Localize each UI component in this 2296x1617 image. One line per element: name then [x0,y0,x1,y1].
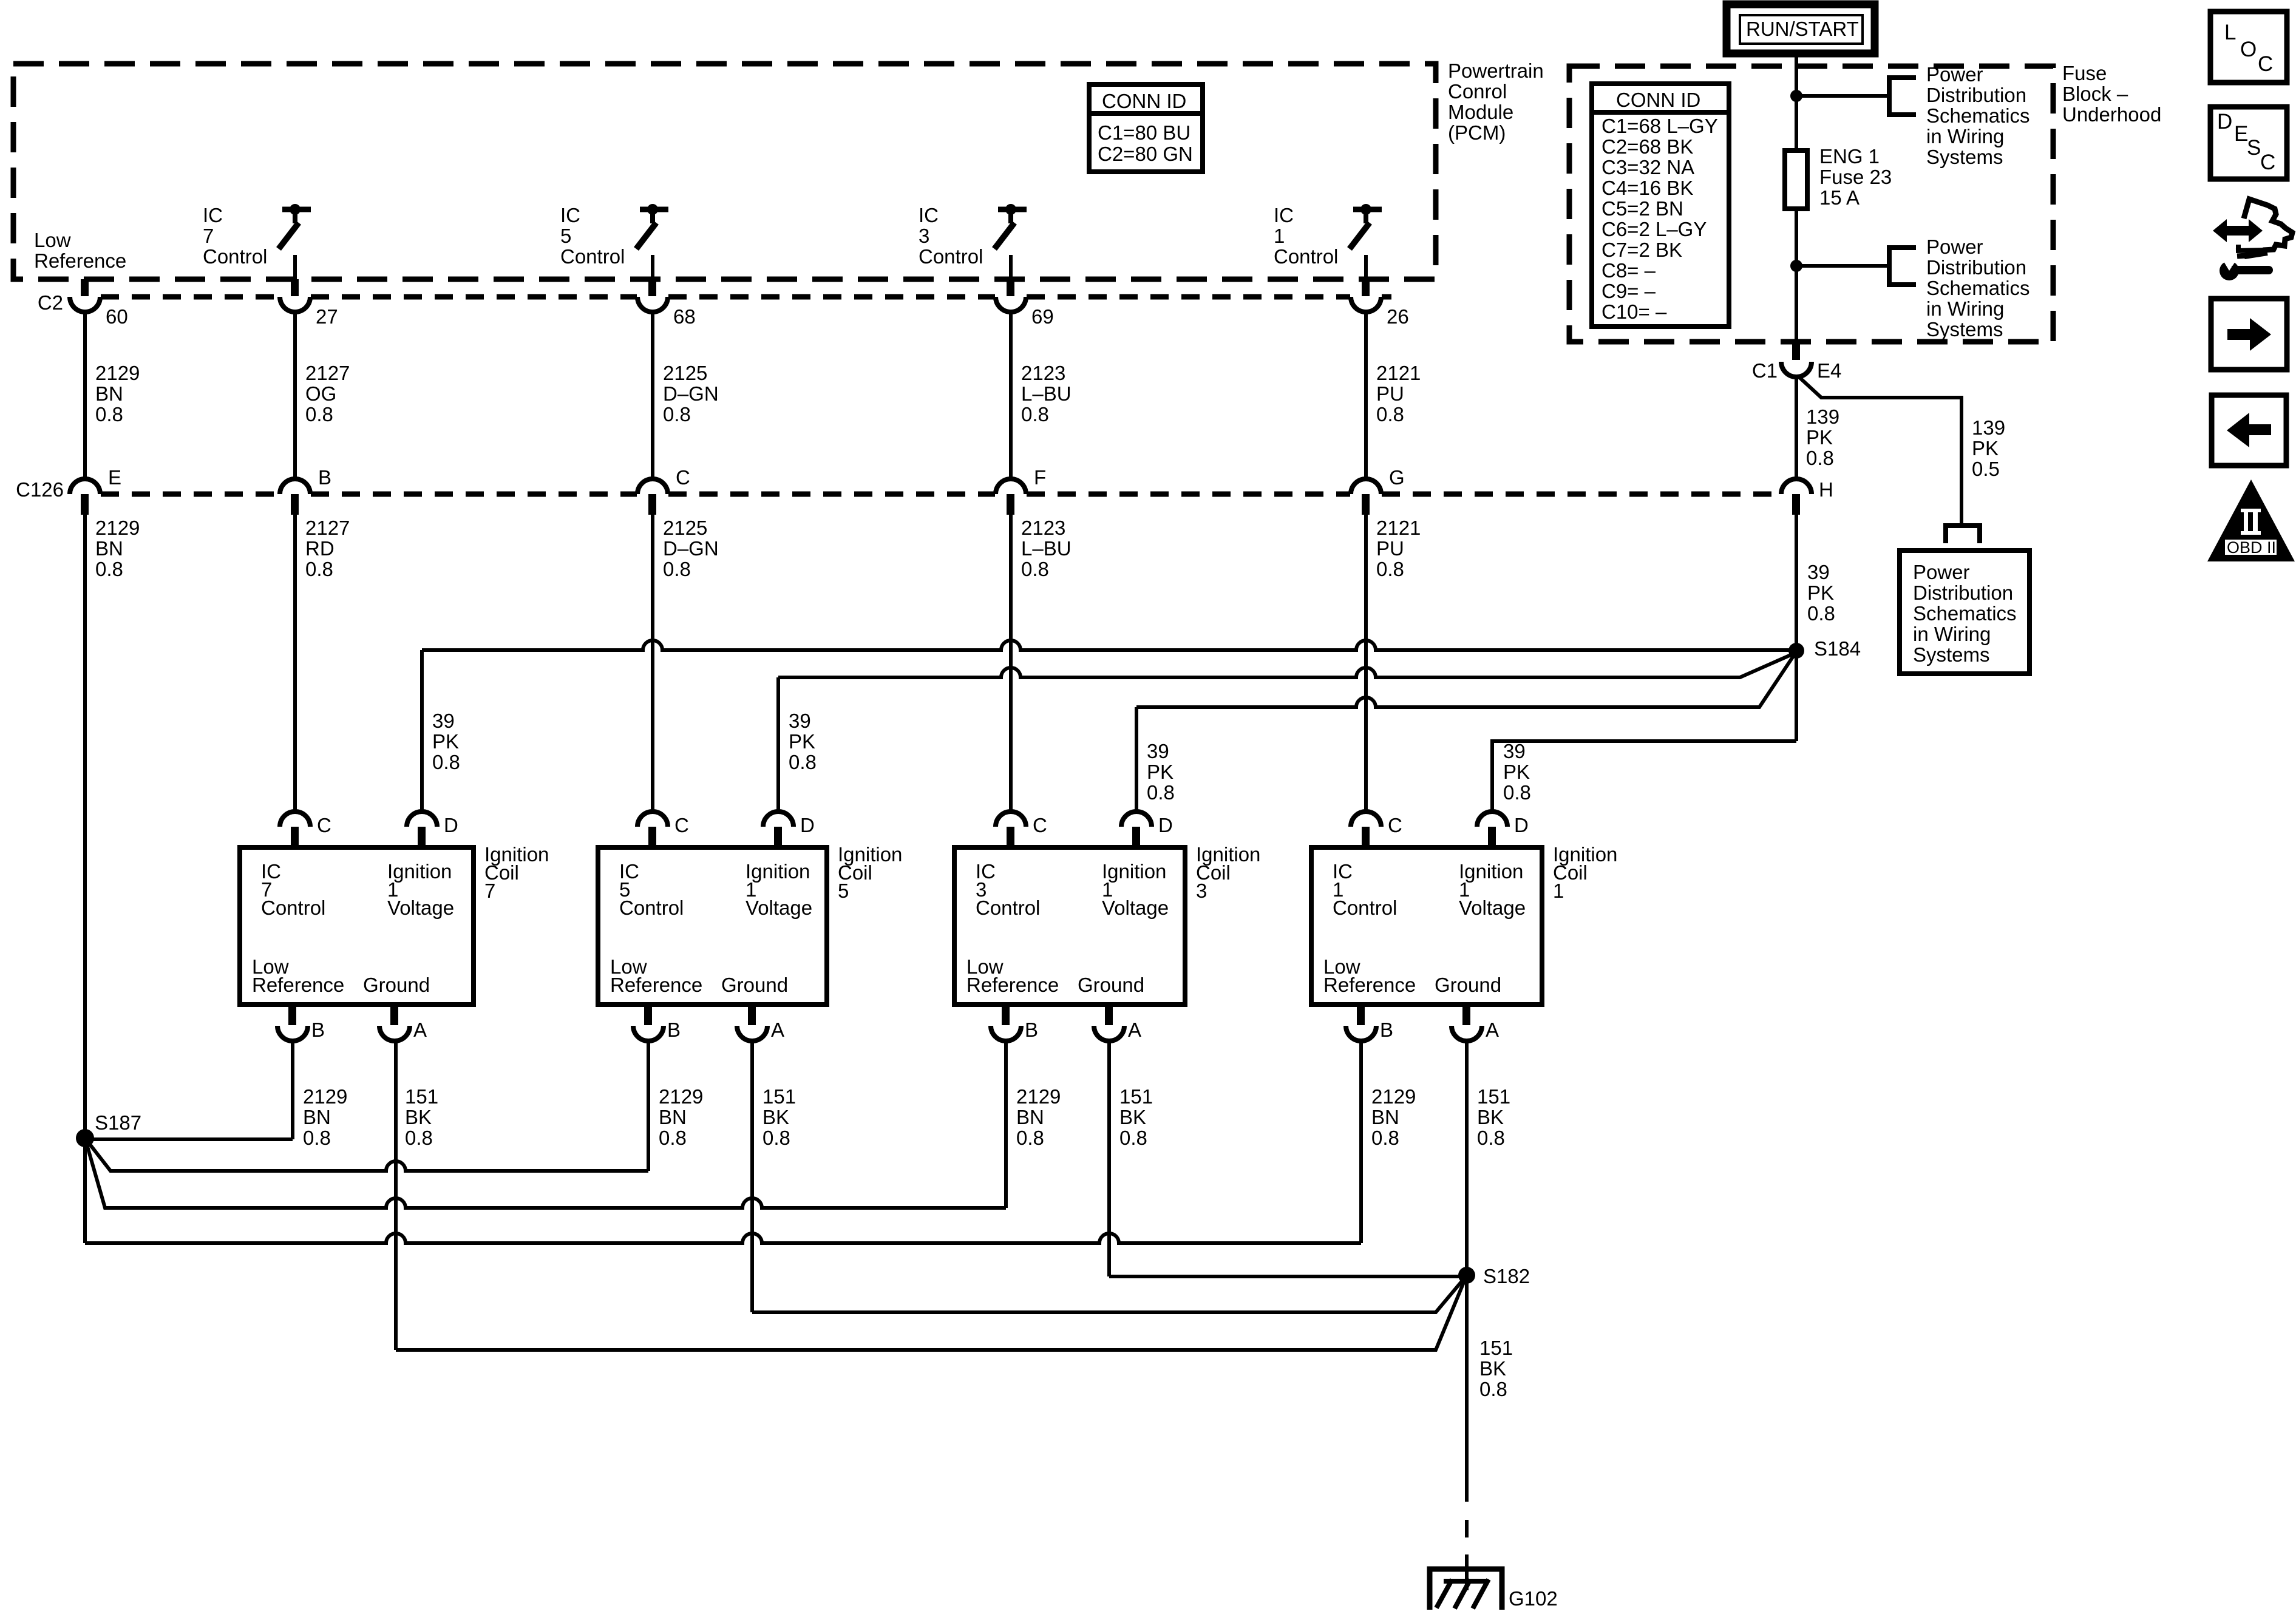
sidebar icon OBD II triangle [2207,480,2295,561]
svg-text:S187: S187 [95,1111,141,1134]
svg-text:BK: BK [763,1106,789,1128]
sidebar icon forward arrow box [2211,299,2287,370]
svg-text:Voltage: Voltage [1459,897,1526,919]
svg-text:Distribution: Distribution [1926,84,2026,106]
junction node (feed to lower Power Distribution) [1790,260,1802,272]
svg-text:Schematics: Schematics [1926,277,2030,299]
svg-text:IC: IC [1274,204,1294,226]
svg-text:Fuse 23: Fuse 23 [1819,166,1892,188]
svg-text:D: D [2217,110,2232,134]
wire label 2127 RD 0.8 [305,517,350,580]
svg-text:0.8: 0.8 [1807,602,1835,625]
wire label 39 PK 0.8 [1807,561,1835,625]
wire label 2121 PU 0.8 [1376,362,1421,425]
wire dashed segment above G102 [1465,1520,1469,1537]
svg-text:PK: PK [1807,581,1834,604]
svg-text:Conrol: Conrol [1448,80,1507,103]
wire coil 5 B drop (2129 BN) [647,1041,650,1171]
svg-text:C126: C126 [16,478,64,501]
Fuse Block label [2062,62,2161,126]
svg-text:D: D [800,814,815,836]
coil 3 connector pin A [1094,1005,1141,1041]
splice S184 [1788,637,1861,660]
svg-text:Control: Control [1333,897,1397,919]
coil 5 box [598,847,827,1005]
coil 7 connector pin A [379,1005,427,1041]
wire 39 PK 0.8 (C126-H down through S184) [1795,515,1798,741]
wire branch 139 PK 0.5 (to Power Distribution box) [1798,376,1961,523]
svg-text:39: 39 [789,710,811,732]
svg-text:139: 139 [1972,416,2005,439]
wire 2129 BN (C126-E down to S187/splice run) [83,515,87,1243]
wire label 151 BK 0.8 (S182 to G102) [1479,1337,1513,1400]
svg-text:C5=2 BN: C5=2 BN [1601,197,1683,220]
svg-text:Module: Module [1448,101,1513,123]
connector C126 pin E [70,466,121,515]
wire label 39 PK 0.8 (coil 7) [432,710,460,773]
svg-text:H: H [1819,478,1833,501]
svg-text:2129: 2129 [659,1085,703,1108]
wire label 139 PK 0.8 [1806,405,1839,469]
wire coil 3 B drop (2129 BN) [1004,1041,1008,1208]
sidebar icon schematic-reference (arrow + wrench) [2213,199,2292,280]
wire label 151 BK 0.8 (coil 1) [1477,1085,1510,1149]
svg-text:Voltage: Voltage [1102,897,1169,919]
svg-text:OG: OG [305,382,336,405]
svg-text:Control: Control [619,897,684,919]
svg-text:G102: G102 [1509,1587,1558,1610]
svg-text:PU: PU [1376,537,1404,560]
wire 2123 L-BU (C2-69 to C126-F) [1009,312,1013,479]
svg-text:0.8: 0.8 [305,403,333,425]
svg-text:IC: IC [919,204,939,226]
svg-text:0.8: 0.8 [1806,447,1834,469]
svg-text:PK: PK [1503,761,1530,783]
svg-text:39: 39 [1147,740,1169,762]
wire coil 1 B drop (2129 BN) [1359,1041,1363,1243]
wire label 139 PK 0.5 [1972,416,2005,480]
connector C126 pin B [280,466,331,515]
svg-text:0.8: 0.8 [1371,1127,1399,1149]
sidebar icon LOC box [2210,12,2287,83]
coil 7 connector pin B [277,1005,325,1041]
svg-text:0.8: 0.8 [663,403,691,425]
svg-text:(PCM): (PCM) [1448,121,1506,144]
svg-text:E4: E4 [1817,359,1841,382]
wire label 151 BK 0.8 (coil 3) [1119,1085,1153,1149]
svg-text:0.8: 0.8 [95,558,123,580]
svg-text:E: E [108,466,121,489]
wire S184 to coil 3 pin D (with crossover hop) [1136,656,1793,707]
svg-text:Ground: Ground [1078,974,1144,996]
svg-text:Voltage: Voltage [746,897,812,919]
wire 2127 OG (C2-27 to C126-B) [293,312,297,479]
coil 1 connector pin D [1477,812,1529,847]
svg-text:A: A [771,1019,784,1041]
wire coil 7 A drop (151 BK) [394,1041,398,1350]
svg-text:A: A [1128,1019,1141,1041]
svg-text:D: D [444,814,458,836]
svg-text:C1: C1 [1752,359,1778,382]
coil 1 name label Ignition Coil 1 [1553,843,1617,902]
svg-text:Power: Power [1926,236,1983,258]
connector C2 pin 60 [70,279,128,328]
wire 2127 RD (C126-B to coil 7 pin C) [293,515,297,812]
svg-text:Reference: Reference [966,974,1059,996]
wire label 2125 D-GN 0.8 [663,362,719,425]
svg-text:C: C [1033,814,1047,836]
Fuse Block - Underhood dashed enclosure [1569,66,2053,342]
svg-text:C2=68 BK: C2=68 BK [1601,135,1693,158]
wire to upper Power Distribution bracket [1796,94,1889,98]
svg-text:B: B [311,1019,325,1041]
svg-text:RD: RD [305,537,335,560]
svg-text:S184: S184 [1814,637,1861,660]
svg-text:15 A: 15 A [1819,186,1860,209]
wire label 39 PK 0.8 (coil 1) [1503,740,1531,804]
svg-text:C7=2 BK: C7=2 BK [1601,239,1682,261]
svg-text:39: 39 [432,710,455,732]
coil 5 connector pin A [737,1005,784,1041]
wire label 2123 L-BU 0.8 [1021,517,1072,580]
svg-text:PK: PK [1806,426,1833,449]
wire label 39 PK 0.8 (coil 3) [1147,740,1175,804]
wire label 2129 BN 0.8 (coil 3) [1016,1085,1061,1149]
PCM label: Powertrain Conrol Module (PCM) [1448,59,1544,144]
svg-text:C6=2 L–GY: C6=2 L–GY [1601,218,1707,240]
svg-text:Reference: Reference [252,974,344,996]
svg-text:Ground: Ground [721,974,788,996]
svg-text:2129: 2129 [95,362,140,384]
svg-text:L–BU: L–BU [1021,382,1072,405]
svg-text:in Wiring: in Wiring [1926,297,2004,320]
svg-text:S182: S182 [1483,1265,1530,1287]
connector C126 pin C [637,466,690,515]
connector C2 pin 27 [280,279,338,328]
svg-text:C: C [1388,814,1402,836]
svg-text:PK: PK [1147,761,1173,783]
svg-text:C2: C2 [38,291,63,314]
svg-text:39: 39 [1503,740,1526,762]
svg-text:in Wiring: in Wiring [1913,623,1991,645]
svg-text:D: D [1158,814,1173,836]
label upper Power Distribution Schematics in Wiring Systems [1926,63,2030,168]
splice S182 [1458,1265,1530,1287]
coil 3 connector pin B [991,1005,1038,1041]
svg-text:Reference: Reference [610,974,702,996]
svg-text:B: B [1380,1019,1393,1041]
svg-text:Low: Low [34,229,71,251]
wire RUN/START feed (vertical into fuse block) [1795,53,1798,342]
coil 7 connector pin D [407,812,458,847]
connector C2 pin 68 [637,279,696,328]
svg-text:2123: 2123 [1021,517,1065,539]
wire coil 3 A to S182 [1109,1275,1467,1278]
wire 2123 L-BU (C126-F to coil 3 pin C) [1009,515,1013,812]
Power Distribution Schematics box [1900,551,2029,674]
wire label 2127 OG 0.8 [305,362,350,425]
ground G102 [1430,1569,1558,1610]
svg-text:D–GN: D–GN [663,537,719,560]
svg-text:151: 151 [1119,1085,1153,1108]
coil 7 internal pin labels [252,860,454,996]
fork terminator to Power Distribution box [1946,526,1980,543]
svg-text:Systems: Systems [1926,146,2003,168]
svg-text:0.8: 0.8 [432,751,460,773]
wire label 2123 L-BU 0.8 [1021,362,1072,425]
svg-text:Systems: Systems [1926,318,2003,341]
svg-text:1: 1 [1274,225,1285,247]
wire coil 5 A to S182 [752,1278,1464,1312]
coil 5 connector pin C [637,812,689,847]
svg-text:ENG 1: ENG 1 [1819,145,1880,168]
svg-text:0.8: 0.8 [1021,403,1049,425]
svg-text:68: 68 [673,305,696,328]
svg-text:in Wiring: in Wiring [1926,125,2004,147]
svg-text:Schematics: Schematics [1913,602,2017,625]
switch IC 7 Control label [203,204,267,268]
wire splice run to coil 1 B (with crossover hops) [85,1233,1361,1243]
svg-text:0.5: 0.5 [1972,458,2000,480]
svg-text:Powertrain: Powertrain [1448,59,1544,82]
svg-text:Ground: Ground [363,974,430,996]
svg-text:CONN ID: CONN ID [1102,90,1186,112]
svg-text:2127: 2127 [305,362,350,384]
connector C126 pin H [1781,478,1833,515]
svg-text:PU: PU [1376,382,1404,405]
svg-text:0.8: 0.8 [405,1127,433,1149]
svg-text:151: 151 [1477,1085,1510,1108]
svg-text:0.8: 0.8 [1376,558,1404,580]
svg-text:3: 3 [1196,880,1207,902]
svg-text:0.8: 0.8 [1119,1127,1147,1149]
coil 3 connector pin D [1121,812,1173,847]
PCM dashed enclosure box [13,64,1436,279]
wire 2125 D-GN (C2-68 to C126-C) [651,312,654,479]
svg-text:139: 139 [1806,405,1839,428]
RUN/START power feed box [1727,4,1875,53]
wire 2121 PU (C2-26 to C126-G) [1364,312,1368,479]
svg-text:2121: 2121 [1376,362,1421,384]
svg-text:5: 5 [838,880,849,902]
svg-text:B: B [1025,1019,1038,1041]
svg-text:0.8: 0.8 [1376,403,1404,425]
svg-text:Underhood: Underhood [2062,103,2161,126]
svg-text:D–GN: D–GN [663,382,719,405]
svg-text:BN: BN [1016,1106,1044,1128]
wire S187 to coil 3 B (with crossover hops) [85,1138,1006,1208]
svg-text:C9= –: C9= – [1601,280,1656,302]
coil 7 connector pin C [280,812,331,847]
coil 1 connector pin A [1452,1005,1499,1041]
svg-text:IC: IC [203,204,223,226]
svg-text:Control: Control [919,245,983,268]
svg-text:Distribution: Distribution [1926,256,2026,279]
svg-text:BK: BK [1479,1357,1506,1380]
coil 3 box [954,847,1185,1005]
connector C2 pin 26 [1351,279,1409,328]
connector C126 pin F [996,466,1046,515]
wire label 39 PK 0.8 (coil 5) [789,710,817,773]
svg-text:A: A [413,1019,427,1041]
svg-text:O: O [2240,38,2257,61]
svg-text:D: D [1514,814,1529,836]
svg-text:2129: 2129 [1016,1085,1061,1108]
svg-text:C: C [674,814,689,836]
Low Reference label (PCM) [34,229,126,272]
svg-text:0.8: 0.8 [303,1127,331,1149]
svg-text:S: S [2247,136,2261,160]
svg-text:0.8: 0.8 [1147,781,1175,804]
svg-text:Voltage: Voltage [387,897,454,919]
CONN ID table (PCM) [1089,84,1203,172]
junction node (feed to upper Power Distribution) [1790,90,1802,102]
wire 2121 PU (C126-G to coil 1 pin C) [1364,515,1368,812]
svg-text:0.8: 0.8 [1479,1378,1507,1400]
bracket upper Power Distribution [1889,78,1916,115]
switch IC 1 Control [1350,204,1382,279]
svg-text:Control: Control [976,897,1040,919]
coil 5 connector pin D [763,812,815,847]
switch IC 3 Control label [919,204,983,268]
svg-text:C1=80 BU: C1=80 BU [1098,121,1190,144]
wire label 151 BK 0.8 (coil 7) [405,1085,438,1149]
wire coil 5 A drop (151 BK) [750,1041,754,1312]
coil 1 internal pin labels [1323,860,1526,996]
bracket lower Power Distribution [1889,248,1916,285]
svg-text:7: 7 [484,880,495,902]
svg-text:Systems: Systems [1913,643,1990,666]
wire S184 to coil 1 pin D [1492,741,1796,812]
splice S187 [76,1111,141,1147]
svg-text:E: E [2234,122,2248,146]
svg-text:G: G [1389,466,1405,489]
svg-text:BK: BK [1477,1106,1504,1128]
svg-text:OBD II: OBD II [2227,538,2276,557]
svg-text:L: L [2224,21,2236,44]
wire coil 7 A to S182 [396,1280,1465,1350]
fuse ENG 1 Fuse 23 15 A [1785,145,1892,209]
svg-text:Control: Control [203,245,267,268]
svg-text:CONN ID: CONN ID [1616,89,1700,111]
wire S187 to coil 5 B (with crossover hop) [85,1138,648,1171]
wire coil 3 A drop (151 BK) [1107,1041,1111,1276]
svg-text:BN: BN [95,537,123,560]
switch IC 7 Control [279,204,311,279]
connector C2 pin 69 [996,279,1054,328]
svg-text:151: 151 [405,1085,438,1108]
svg-text:Distribution: Distribution [1913,581,2013,604]
svg-text:C: C [317,814,331,836]
coil 3 internal pin labels [966,860,1169,996]
switch IC 1 Control label [1274,204,1338,268]
coil 1 connector pin B [1346,1005,1393,1041]
svg-text:Power: Power [1913,561,1970,583]
coil 7 box [240,847,474,1005]
label lower Power Distribution Schematics in Wiring Systems [1926,236,2030,341]
svg-text:BN: BN [1371,1106,1399,1128]
svg-text:0.8: 0.8 [663,558,691,580]
coil 3 name label Ignition Coil 3 [1196,843,1260,902]
wire coil 7 D drop [420,650,424,812]
svg-text:0.8: 0.8 [305,558,333,580]
wire label 2129 BN 0.8 (coil 1) [1371,1085,1416,1149]
wire coil 7 B drop (2129 BN) [291,1041,294,1139]
svg-text:L–BU: L–BU [1021,537,1072,560]
coil 1 box [1311,847,1542,1005]
wire into ground [1465,1554,1469,1590]
svg-text:2121: 2121 [1376,517,1421,539]
coil 3 connector pin C [996,812,1047,847]
svg-text:3: 3 [919,225,929,247]
svg-text:C3=32 NA: C3=32 NA [1601,156,1694,178]
coil 5 connector pin B [633,1005,681,1041]
coil 7 name label Ignition Coil 7 [484,843,549,902]
svg-text:60: 60 [106,305,128,328]
wire label 2129 BN 0.8 (coil 5) [659,1085,703,1149]
svg-text:C8= –: C8= – [1601,259,1656,282]
svg-text:C4=16 BK: C4=16 BK [1601,177,1693,199]
coil 5 internal pin labels [610,860,812,996]
svg-text:0.8: 0.8 [1503,781,1531,804]
svg-text:IC: IC [560,204,580,226]
switch IC 3 Control [994,204,1027,279]
svg-text:0.8: 0.8 [763,1127,790,1149]
wire label 2125 D-GN 0.8 [663,517,719,580]
svg-text:RUN/START: RUN/START [1746,18,1859,40]
svg-text:C: C [2260,151,2275,174]
svg-text:BK: BK [405,1106,432,1128]
connector line C2 (dotted) [101,294,1391,300]
wire 2125 D-GN (C126-C to coil 5 pin C) [651,515,654,812]
svg-text:2127: 2127 [305,517,350,539]
svg-text:C10= –: C10= – [1601,300,1667,323]
svg-text:BN: BN [303,1106,331,1128]
svg-text:B: B [667,1019,681,1041]
sidebar icon DESC box [2210,107,2287,179]
connector C126 pin G [1351,466,1405,515]
svg-text:PK: PK [1972,437,1999,459]
svg-text:151: 151 [1479,1337,1513,1359]
sidebar icon back arrow box [2212,395,2286,466]
wire coil 1 A drop (151 BK through S182) [1465,1041,1469,1502]
svg-text:39: 39 [1807,561,1830,583]
svg-text:B: B [318,466,331,489]
svg-text:Schematics: Schematics [1926,104,2030,127]
wire to lower Power Distribution bracket [1796,264,1889,268]
svg-text:Control: Control [1274,245,1338,268]
coil 1 connector pin C [1351,812,1402,847]
svg-text:151: 151 [763,1085,796,1108]
svg-text:0.8: 0.8 [659,1127,687,1149]
svg-text:2129: 2129 [1371,1085,1416,1108]
svg-text:F: F [1034,466,1046,489]
wire label 151 BK 0.8 (coil 5) [763,1085,796,1149]
svg-text:27: 27 [316,305,338,328]
svg-text:0.8: 0.8 [1021,558,1049,580]
wire label 2121 PU 0.8 [1376,517,1421,580]
svg-text:Fuse: Fuse [2062,62,2107,84]
svg-text:2125: 2125 [663,362,707,384]
svg-text:Control: Control [560,245,625,268]
svg-text:Block –: Block – [2062,83,2128,105]
svg-text:BN: BN [95,382,123,405]
connector C1/E4 [1752,342,1842,382]
svg-text:2129: 2129 [95,517,140,539]
svg-text:C2=80 GN: C2=80 GN [1098,143,1193,165]
svg-text:A: A [1486,1019,1499,1041]
svg-text:BN: BN [659,1106,687,1128]
